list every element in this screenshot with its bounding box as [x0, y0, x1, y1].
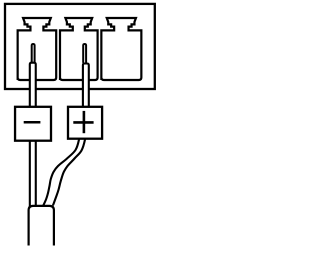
wire 2 lower segment, S-curve left edge (plus box to cable): [43, 133, 79, 207]
wire 1 lower segment (minus box to cable): [29, 130, 37, 207]
wire 1 stripped conductor pin (in terminal 1): [31, 45, 36, 62]
plus sign: [73, 121, 93, 124]
terminal 1 (screw contact): [18, 18, 57, 80]
plus box: [68, 107, 102, 139]
minus sign: [24, 121, 41, 124]
cable jacket (open bottom): [29, 206, 54, 246]
minus box: [15, 107, 51, 141]
wire 2 lower segment, S-curve right edge: [53, 133, 85, 206]
wire 2 stripped conductor pin (in terminal 2): [82, 45, 87, 62]
terminal block outer housing: [5, 4, 155, 89]
terminal 2 (screw contact): [60, 18, 98, 80]
wire 1 insulation upper segment (terminal to minus box): [30, 63, 36, 120]
wire 2 insulation upper segment (terminal to plus box): [83, 64, 89, 121]
terminal 3 (screw contact, empty): [101, 18, 141, 80]
